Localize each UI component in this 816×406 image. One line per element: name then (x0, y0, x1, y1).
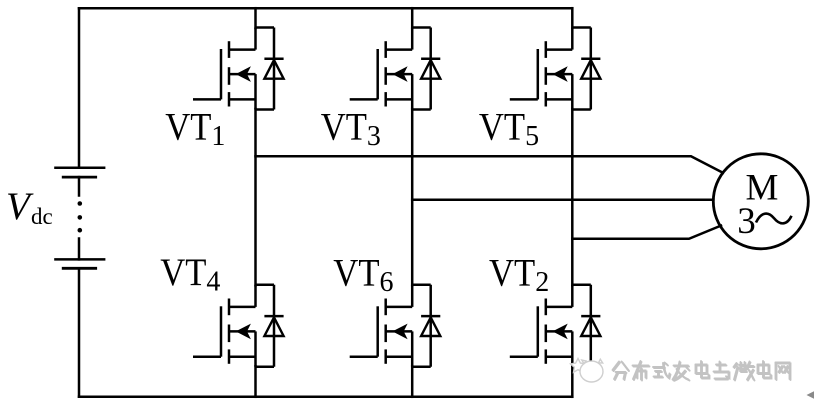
wire left rail upper segment (78, 8, 81, 168)
wire leg3 bottom segment to rail (571, 366, 574, 397)
svg-text:VT2: VT2 (489, 251, 549, 299)
battery cell B2 long plate (54, 258, 105, 261)
diode D5 (body diode of VT5) (572, 28, 600, 110)
分 (613, 362, 620, 371)
wire bottom DC bus rail (79, 396, 572, 399)
与 (716, 364, 726, 366)
与 (717, 365, 727, 367)
svg-text:VT4: VT4 (160, 250, 220, 298)
电 (697, 366, 708, 375)
battery cell B2 short plate (62, 267, 97, 270)
battery cell B1 short plate (62, 176, 97, 179)
分 (614, 363, 621, 372)
wire leg3 drain segment from top rail (571, 8, 574, 28)
式 (654, 367, 665, 369)
watermark logo blob (571, 359, 603, 383)
diode D1 (body diode of VT1) (256, 28, 284, 110)
wire leg1 middle segment (phase A node) (254, 109, 257, 285)
wire phase C line to motor (572, 226, 721, 239)
wire left rail stub above second cell (78, 239, 81, 260)
svg-text:VT5: VT5 (479, 105, 539, 153)
电 (696, 365, 707, 374)
微 (735, 364, 738, 368)
motor M circle (713, 154, 808, 249)
svg-text:VT1: VT1 (165, 105, 225, 153)
battery ellipsis dots (78, 201, 83, 232)
transistor VT5 (510, 28, 573, 110)
transistor VT4 (193, 285, 256, 367)
发 (675, 366, 690, 368)
wire left rail stub below first cell (78, 177, 81, 195)
wire left rail lower segment (78, 268, 81, 397)
wire leg1 bottom segment to rail (254, 366, 257, 397)
svg-text:dc: dc (31, 204, 53, 229)
diode D6 (body diode of VT6) (412, 285, 440, 367)
diode D4 (body diode of VT4) (256, 285, 284, 367)
watermark text 分布式发电与微电网 (614, 362, 791, 381)
svg-text:VT6: VT6 (333, 251, 393, 299)
wire phase A line to motor (256, 156, 724, 173)
wire leg2 middle segment (phase B node) (411, 109, 414, 285)
transistor VT2 (510, 285, 573, 367)
wire leg3 middle segment (phase C node) (571, 109, 574, 285)
corner cursor arrow (807, 391, 815, 398)
svg-text:3: 3 (737, 201, 756, 242)
发 (674, 365, 689, 367)
网 (776, 363, 790, 380)
wire leg1 drain segment from top rail (254, 8, 257, 28)
diode D2 (body diode of VT2) (572, 285, 600, 367)
布 (634, 366, 650, 368)
svg-text:VT3: VT3 (321, 105, 381, 153)
wire top DC bus rail (79, 7, 572, 10)
wire leg2 bottom segment to rail (411, 366, 414, 397)
transistor VT6 (350, 285, 413, 367)
diode D3 (body diode of VT3) (412, 28, 440, 110)
微 (734, 363, 737, 367)
transistor VT3 (350, 28, 413, 110)
wire phase B line to motor (412, 199, 713, 202)
transistor VT1 (193, 28, 256, 110)
电 (758, 365, 769, 374)
电 (759, 366, 770, 375)
svg-text:V: V (6, 185, 34, 228)
式 (653, 366, 664, 368)
网 (777, 364, 791, 381)
布 (633, 365, 649, 367)
wire leg2 drain segment from top rail (411, 8, 414, 28)
battery cell B1 long plate (54, 167, 105, 170)
